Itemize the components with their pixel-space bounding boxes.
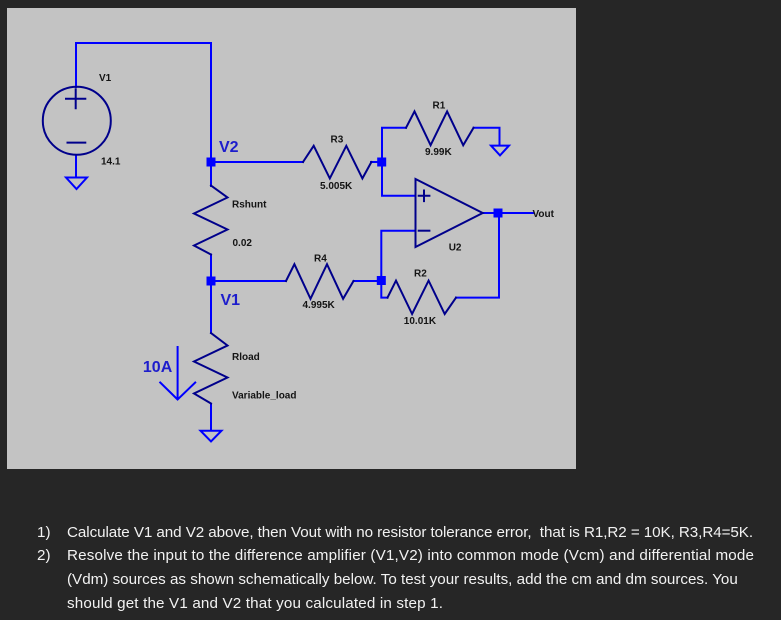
svg-text:Rload: Rload bbox=[232, 352, 260, 363]
resistor R2 zigzag bbox=[388, 281, 457, 314]
wire V1 node to R4 bbox=[211, 280, 286, 282]
svg-text:U2: U2 bbox=[449, 243, 462, 254]
ground below V1 source bbox=[66, 178, 87, 190]
wire node B up to op-amp minus input bbox=[381, 231, 415, 281]
wire R2 right up to Vout node bbox=[456, 213, 499, 298]
wire R1 right to ground bbox=[474, 128, 500, 145]
ground right of R1 bbox=[491, 146, 509, 156]
svg-text:14.1: 14.1 bbox=[101, 157, 121, 168]
question text line 2 bbox=[37, 548, 51, 564]
svg-text:Rshunt: Rshunt bbox=[232, 200, 267, 211]
node V1 junction square bbox=[207, 277, 216, 286]
svg-text:R1: R1 bbox=[433, 101, 446, 112]
wire node A down to op-amp plus input bbox=[382, 162, 416, 196]
svg-text:V1: V1 bbox=[221, 292, 241, 309]
resistor R3 zigzag bbox=[303, 146, 371, 179]
resistor Rload zigzag bbox=[194, 333, 228, 404]
current arrow 10A bbox=[160, 347, 195, 400]
wire R4 to node B bbox=[354, 280, 383, 282]
svg-text:V2: V2 bbox=[219, 139, 239, 156]
svg-text:10A: 10A bbox=[143, 359, 173, 376]
svg-text:V1: V1 bbox=[99, 73, 112, 84]
svg-text:5.005K: 5.005K bbox=[320, 181, 353, 192]
node V2 junction square bbox=[207, 158, 216, 167]
svg-text:Vout: Vout bbox=[533, 209, 555, 220]
question text line 3 bbox=[67, 572, 738, 588]
wire from V1 top to V2 vertical bbox=[76, 43, 211, 186]
svg-text:Variable_load: Variable_load bbox=[232, 391, 296, 402]
op-amp U2 triangle bbox=[416, 179, 483, 247]
resistor Rshunt zigzag bbox=[194, 186, 228, 255]
node Vout junction square bbox=[494, 209, 503, 218]
resistor R1 zigzag bbox=[406, 111, 474, 145]
svg-text:9.99K: 9.99K bbox=[425, 147, 452, 158]
svg-text:R4: R4 bbox=[314, 254, 327, 265]
wire V1 node down to Rload bbox=[210, 281, 212, 333]
voltage source V1 circle bbox=[43, 87, 111, 155]
svg-text:R3: R3 bbox=[331, 135, 344, 146]
wire node B jog down to R2 bbox=[381, 281, 387, 298]
wire Rshunt bottom to V1 node bbox=[210, 255, 212, 282]
op-amp minus input symbol bbox=[419, 230, 430, 232]
svg-text:R2: R2 bbox=[414, 269, 427, 280]
wire R3 to node A bbox=[371, 161, 382, 163]
op-amp plus input symbol bbox=[419, 191, 430, 202]
wire Rload bottom to ground bbox=[210, 404, 212, 431]
node B junction square bbox=[377, 276, 386, 285]
question text line 1 bbox=[37, 525, 51, 541]
resistor R4 zigzag bbox=[286, 264, 354, 299]
V1 plus symbol bbox=[66, 89, 85, 108]
svg-text:10.01K: 10.01K bbox=[404, 316, 437, 327]
V1 minus symbol bbox=[68, 142, 86, 144]
wire node A up to R1 left bbox=[382, 128, 406, 162]
wire V2 node to R3 bbox=[211, 161, 303, 163]
wire op-amp output to Vout label bbox=[483, 212, 533, 214]
ground below Rload bbox=[201, 431, 222, 442]
node A junction square bbox=[377, 158, 386, 167]
svg-text:4.995K: 4.995K bbox=[303, 300, 336, 311]
wire V1 source bottom to ground bbox=[75, 155, 77, 177]
schematic panel bbox=[7, 8, 576, 469]
question text line 4 bbox=[67, 596, 443, 612]
svg-text:0.02: 0.02 bbox=[233, 238, 253, 249]
